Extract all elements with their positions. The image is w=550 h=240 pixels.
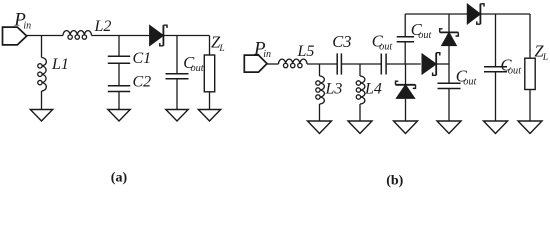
caption (a) <box>111 171 128 186</box>
wire Cout right to ground <box>495 72 497 121</box>
wire ZL to ground (a) <box>209 92 211 110</box>
label C1 <box>133 50 152 67</box>
wire C1 to C2 <box>118 63 120 85</box>
ground under ZL (b) <box>518 121 542 134</box>
wire node C up to cap (b) <box>404 42 406 64</box>
wire from port to L5 <box>267 63 279 65</box>
wire shunt diode to ground (b) <box>405 98 407 121</box>
wire D4 to node D <box>448 46 450 64</box>
label L1 <box>51 56 69 73</box>
ground under Cout (a) <box>166 109 188 121</box>
wire top rail left segment <box>405 13 467 15</box>
wire rail from L2 to diode (a) <box>92 35 151 37</box>
inductor L1 <box>38 58 47 92</box>
wire C2 to ground <box>118 92 120 110</box>
capacitor C3 <box>337 53 341 74</box>
wire L1 to ground <box>41 91 43 110</box>
svg-text:out: out <box>508 66 522 77</box>
wire cap to top rail (b) <box>404 14 406 37</box>
port Pin (b) <box>244 55 267 72</box>
wire node to L1 <box>41 36 43 58</box>
wire node to L4 <box>359 64 361 76</box>
load ZL (a) <box>204 55 214 92</box>
label ZL (a) <box>211 33 225 54</box>
wire top rail to D4 bar <box>448 14 450 32</box>
load ZL (b) <box>525 58 535 89</box>
ground under shunt diode (b) <box>394 121 418 134</box>
label Cout node C (b) <box>411 20 433 41</box>
wire Cout node D to ground <box>448 89 450 122</box>
label C2 <box>133 74 152 91</box>
svg-text:C3: C3 <box>332 32 351 51</box>
svg-text:L1: L1 <box>51 56 69 73</box>
ground under C2 <box>108 109 130 121</box>
ground under Cout node D <box>437 121 461 134</box>
label Pin (a) <box>13 10 26 31</box>
wire node to L3 <box>319 64 321 76</box>
wire L4 to ground <box>359 104 361 121</box>
svg-text:(b): (b) <box>386 174 403 189</box>
diode D4 to top rail (b) <box>440 29 459 46</box>
wire D3 to node D <box>437 63 450 65</box>
svg-text:L2: L2 <box>94 18 112 35</box>
svg-text:out: out <box>463 76 477 87</box>
diode D2 shunt (b) <box>396 81 416 98</box>
ground under L4 <box>348 121 372 134</box>
svg-text:L4: L4 <box>364 81 382 98</box>
label L2 <box>94 18 112 35</box>
label L5 <box>297 43 315 60</box>
wire from L5 to C3 <box>307 63 337 65</box>
diode D1 (a) <box>150 25 167 46</box>
svg-text:L: L <box>542 53 548 63</box>
label ZL (b) <box>534 42 548 63</box>
caption (b) <box>386 174 403 189</box>
wire down to ZL (a) <box>209 36 211 56</box>
wire top rail down to Cout right (b) <box>495 14 497 67</box>
port Pin (a) <box>3 27 27 45</box>
wire from C3 to L4 node <box>342 63 382 65</box>
wire down to ZL (b) <box>529 14 531 58</box>
ground under ZL (a) <box>198 109 220 121</box>
capacitor Cout right (b) <box>484 67 507 72</box>
inductor L5 <box>279 59 308 68</box>
svg-text:L: L <box>218 44 224 54</box>
svg-text:L5: L5 <box>297 43 315 60</box>
inductor L3 <box>316 76 325 104</box>
diode D3 series (b) <box>422 53 440 76</box>
wire node C down to diode (b) <box>405 64 407 84</box>
wire from Cout series to D2 <box>386 63 421 65</box>
label Cout series (b) <box>372 31 394 52</box>
svg-text:L3: L3 <box>325 81 343 98</box>
capacitor Cout series (b) <box>381 54 386 75</box>
svg-text:C1: C1 <box>133 50 152 67</box>
svg-text:in: in <box>263 49 271 60</box>
capacitor C1 <box>108 56 130 63</box>
wire L3 to ground <box>319 104 321 121</box>
capacitor Cout node D (b) <box>438 83 461 88</box>
capacitor Cout (a) <box>166 74 189 79</box>
ground under L1 <box>30 109 52 121</box>
inductor L4 <box>356 76 365 104</box>
wire top rail right segment <box>481 13 531 15</box>
label C3 <box>332 32 351 51</box>
capacitor Cout node C (b) <box>397 37 414 42</box>
svg-text:(a): (a) <box>111 171 128 186</box>
diode D5 top rail (b) <box>467 4 484 24</box>
svg-text:out: out <box>379 42 393 53</box>
svg-text:out: out <box>418 30 432 41</box>
wire rail from D1 to ZL corner (a) <box>164 35 210 37</box>
label Pin subscript (a) <box>23 20 31 31</box>
wire node to C1 <box>118 36 120 57</box>
capacitor C2 <box>108 86 130 92</box>
wire node to Cout (a) <box>176 36 178 74</box>
label Cout (a) <box>183 53 204 74</box>
wire rail from port to L2 (a) <box>27 35 64 37</box>
wire Cout to ground (a) <box>176 79 178 110</box>
label Cout right (b) <box>501 56 523 77</box>
svg-text:out: out <box>191 63 205 74</box>
label Pin (b) <box>253 38 266 59</box>
svg-text:C2: C2 <box>133 74 152 91</box>
ground under L3 <box>308 121 332 134</box>
label Cout node D (b) <box>456 66 478 87</box>
svg-text:in: in <box>23 20 31 31</box>
wire ZL to ground (b) <box>529 90 531 122</box>
ground under Cout right <box>484 121 508 134</box>
wire node D to Cout (b) <box>448 64 450 83</box>
label L3 <box>325 81 343 98</box>
inductor L2 <box>63 31 92 40</box>
label L4 <box>364 81 382 98</box>
label Pin subscript (b) <box>263 49 271 60</box>
